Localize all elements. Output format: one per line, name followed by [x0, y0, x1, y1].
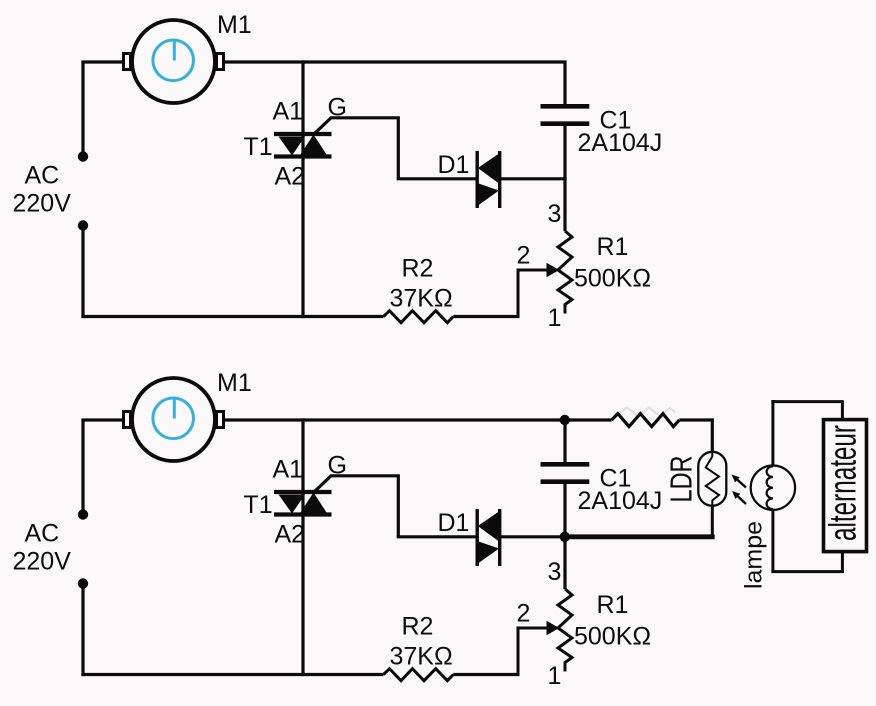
svg-text:1: 1	[548, 304, 562, 332]
lamp filament coil	[767, 466, 773, 509]
svg-text:500KΩ: 500KΩ	[574, 623, 651, 651]
resistor R2 zigzag (top circuit)	[384, 311, 454, 323]
motor M1 inner dial circle (top circuit)	[153, 40, 194, 81]
triac T1 lower bar (top circuit)	[274, 154, 332, 158]
motor M1 inner dial circle (bottom circuit)	[153, 398, 194, 439]
wire D1 left segment (bottom circuit)	[397, 535, 477, 538]
wire top rail right with corner to C1 (top circuit)	[225, 62, 565, 104]
svg-text:A1: A1	[273, 98, 304, 126]
LDR body	[698, 452, 726, 506]
diac D1 left bar (bottom circuit)	[476, 509, 479, 566]
diac D1 right bar (top circuit)	[498, 151, 501, 208]
wire gate from triac to D1 (bottom circuit)	[314, 476, 399, 537]
light arrow 2 line	[738, 496, 746, 504]
R1 wiper arrow line (top circuit)	[518, 269, 549, 272]
motor M1 right brush tab (bottom circuit)	[217, 412, 224, 428]
triac T1 upper bar (top circuit)	[274, 132, 332, 136]
svg-text:R2: R2	[402, 255, 434, 283]
wire left-bottom vertical (bottom circuit)	[81, 586, 84, 676]
svg-text:LDR: LDR	[664, 456, 699, 503]
wire triac branch vertical (bottom circuit)	[301, 418, 304, 676]
light arrow 1 line	[737, 480, 746, 488]
junction node at top rail / feedback branch	[560, 415, 570, 425]
potentiometer R1 zigzag (top circuit)	[558, 231, 572, 314]
AC source terminal dot upper (bottom circuit)	[78, 509, 88, 519]
triac T1 left triangle (bottom circuit)	[279, 495, 306, 514]
motor M1 right brush tab (top circuit)	[217, 54, 224, 70]
AC source terminal dot upper (top circuit)	[78, 151, 88, 161]
svg-text:G: G	[328, 452, 347, 480]
wire LDR bottom	[711, 506, 714, 537]
svg-text:alternateur: alternateur	[823, 425, 865, 541]
motor M1 left brush tab (top circuit)	[124, 54, 131, 70]
svg-text:AC: AC	[25, 162, 60, 190]
wire C1 bottom to R1 top (bottom circuit)	[563, 484, 566, 589]
lamp body	[751, 466, 795, 510]
svg-text:3: 3	[548, 558, 562, 586]
svg-text:M1: M1	[217, 11, 252, 39]
triac T1 right triangle (top circuit)	[300, 135, 328, 157]
motor M1 body (bottom circuit)	[132, 378, 215, 461]
wire top rail right with corner to C1 (bottom circuit)	[225, 420, 565, 462]
capacitor C1 top plate (bottom circuit)	[541, 462, 590, 467]
wire lamp top vertical	[771, 400, 774, 467]
motor M1 inner dial pointer (bottom circuit)	[173, 398, 176, 419]
wire bottom rail left (top circuit)	[81, 315, 383, 318]
wire left-top vertical (bottom circuit)	[81, 420, 84, 511]
wire bottom rail right (bottom circuit)	[453, 673, 519, 676]
diac D1 lower triangle (bottom circuit)	[477, 541, 499, 564]
svg-text:lampe: lampe	[741, 521, 768, 589]
svg-text:AC: AC	[25, 520, 60, 548]
svg-text:37KΩ: 37KΩ	[390, 643, 453, 671]
svg-text:1: 1	[548, 662, 562, 690]
wire feedback branch right corner down to LDR	[679, 420, 712, 452]
triac T1 right triangle (bottom circuit)	[300, 493, 328, 515]
wire D1 left segment (top circuit)	[397, 177, 477, 180]
svg-text:2: 2	[517, 600, 531, 628]
junction node at D1 rail / LDR return	[560, 532, 570, 542]
svg-text:220V: 220V	[13, 190, 72, 218]
light arrow 2 head	[732, 491, 740, 499]
wire bottom rail left (bottom circuit)	[81, 673, 383, 676]
R1 wiper arrowhead (top circuit)	[547, 263, 560, 278]
svg-text:M1: M1	[217, 369, 252, 397]
feedback resistor zigzag	[612, 414, 680, 427]
motor M1 inner dial pointer (top circuit)	[173, 40, 176, 61]
ghost zigzag artifact	[620, 408, 675, 417]
svg-text:A2: A2	[275, 521, 306, 549]
potentiometer R1 zigzag (bottom circuit)	[558, 589, 572, 672]
diac D1 right bar (bottom circuit)	[498, 509, 501, 566]
motor M1 body (top circuit)	[132, 20, 215, 103]
AC source terminal dot lower (bottom circuit)	[78, 578, 88, 588]
svg-text:T1: T1	[244, 133, 273, 161]
diac D1 upper triangle (top circuit)	[478, 153, 500, 184]
wire D1 right segment (bottom circuit)	[500, 535, 567, 538]
diac D1 upper triangle (bottom circuit)	[478, 511, 500, 542]
capacitor C1 top plate (top circuit)	[541, 104, 590, 109]
svg-text:T1: T1	[244, 491, 273, 519]
wire feedback branch left	[565, 418, 612, 421]
wire left-bottom vertical (top circuit)	[81, 228, 84, 318]
svg-text:R1: R1	[597, 233, 629, 261]
svg-text:R1: R1	[597, 591, 629, 619]
triac T1 upper bar (bottom circuit)	[274, 490, 332, 494]
wire C1 bottom to R1 top (top circuit)	[563, 126, 566, 231]
R1 wiper arrowhead (bottom circuit)	[547, 621, 560, 636]
triac T1 left triangle (top circuit)	[279, 137, 306, 156]
svg-text:220V: 220V	[13, 548, 72, 576]
svg-text:2A104J: 2A104J	[578, 487, 663, 515]
svg-text:2A104J: 2A104J	[578, 129, 663, 157]
R1 wiper arrow line (bottom circuit)	[518, 627, 549, 630]
triac T1 lower bar (bottom circuit)	[274, 512, 332, 516]
wire left-top vertical (top circuit)	[81, 62, 84, 153]
svg-text:37KΩ: 37KΩ	[390, 285, 453, 313]
wire bottom rail right (top circuit)	[453, 315, 519, 318]
svg-text:D1: D1	[438, 509, 470, 537]
wire triac branch vertical (top circuit)	[301, 60, 304, 318]
svg-text:D1: D1	[438, 151, 470, 179]
svg-text:A1: A1	[273, 456, 304, 484]
wire lamp bottom rail to alternator	[771, 552, 842, 572]
AC source terminal dot lower (top circuit)	[78, 220, 88, 230]
motor M1 left brush tab (bottom circuit)	[124, 412, 131, 428]
LDR zigzag	[706, 453, 719, 505]
wire gate from triac to D1 (top circuit)	[314, 118, 399, 179]
wire wiper down to rail (bottom circuit)	[517, 627, 520, 675]
diac D1 left bar (top circuit)	[476, 151, 479, 208]
wire top rail left (bottom circuit)	[81, 418, 123, 421]
svg-text:500KΩ: 500KΩ	[574, 265, 651, 293]
wire LDR return to junction	[566, 534, 715, 539]
wire top rail left (top circuit)	[81, 60, 123, 63]
wire wiper down to rail (top circuit)	[517, 269, 520, 317]
svg-text:2: 2	[517, 242, 531, 270]
diac D1 lower triangle (top circuit)	[477, 183, 499, 206]
wire lamp bottom vertical	[771, 509, 774, 571]
wire lamp top rail to alternator	[771, 402, 842, 420]
svg-text:R2: R2	[402, 613, 434, 641]
capacitor C1 bottom plate (top circuit)	[541, 121, 590, 126]
svg-text:G: G	[328, 94, 347, 122]
resistor R2 zigzag (bottom circuit)	[384, 669, 454, 681]
svg-text:3: 3	[548, 200, 562, 228]
alternator box	[824, 420, 867, 552]
capacitor C1 bottom plate (bottom circuit)	[541, 479, 590, 484]
light arrow 1 head	[732, 475, 740, 483]
wire D1 right segment (top circuit)	[500, 177, 567, 180]
svg-text:A2: A2	[275, 163, 306, 191]
